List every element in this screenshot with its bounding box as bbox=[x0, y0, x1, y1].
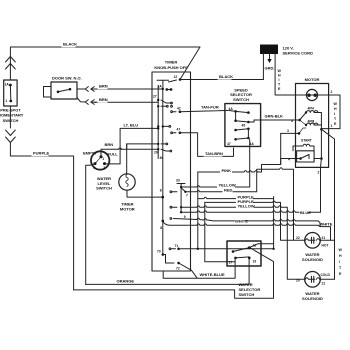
svg-text:8: 8 bbox=[160, 226, 162, 230]
svg-text:1: 1 bbox=[5, 99, 7, 103]
wire white right top bbox=[329, 95, 340, 129]
svg-text:YELLOW: YELLOW bbox=[238, 204, 255, 209]
timer pin 42 bbox=[171, 107, 181, 113]
svg-text:4PH: 4PH bbox=[308, 107, 315, 111]
wire white diag to solenoids bbox=[321, 129, 334, 279]
timer pin 12 bbox=[169, 75, 182, 82]
vertical v2 purple2 bbox=[205, 202, 235, 261]
label water solenoid cold bbox=[302, 291, 323, 301]
wire white-blue bbox=[163, 259, 235, 278]
connector fork lower bbox=[77, 98, 88, 105]
svg-text:27: 27 bbox=[153, 95, 157, 99]
svg-text:WHITE: WHITE bbox=[235, 219, 248, 224]
svg-text:W: W bbox=[339, 248, 343, 252]
svg-text:SWITCH: SWITCH bbox=[96, 186, 112, 191]
wire pin 71 right bbox=[179, 248, 274, 250]
svg-text:LT. BLU: LT. BLU bbox=[124, 123, 139, 128]
wire white service lead bbox=[275, 54, 296, 95]
wire yellow row3 bbox=[181, 206, 305, 280]
wire yellow bbox=[181, 140, 250, 188]
svg-text:BLACK: BLACK bbox=[63, 42, 77, 47]
svg-text:KNOB-PUSH OFF: KNOB-PUSH OFF bbox=[154, 65, 188, 70]
svg-text:ORANGE: ORANGE bbox=[117, 279, 135, 284]
svg-text:2: 2 bbox=[331, 90, 333, 94]
wire blue bbox=[181, 211, 299, 212]
wire motor pin3 bbox=[281, 128, 306, 135]
svg-text:START: START bbox=[301, 139, 312, 143]
svg-text:T: T bbox=[278, 83, 281, 87]
connector arrow upper brn bbox=[91, 87, 96, 92]
label cold solenoid pins bbox=[296, 273, 330, 286]
wire grn-blk bbox=[261, 119, 297, 121]
label hot solenoid pins bbox=[296, 236, 328, 248]
label WHITE vertical service bbox=[278, 69, 282, 91]
door switch bracket bbox=[44, 87, 52, 98]
wire pink vertical motor bbox=[280, 133, 282, 164]
wire pink bbox=[198, 159, 296, 173]
timer contact red row bbox=[170, 191, 172, 193]
wire purple row2 bbox=[205, 201, 294, 240]
label PINK bbox=[220, 169, 232, 174]
wire service cord left lead bbox=[262, 54, 264, 80]
svg-text:SWITCH: SWITCH bbox=[239, 292, 255, 297]
timer contact y3 row bbox=[170, 206, 172, 208]
svg-text:20: 20 bbox=[296, 279, 300, 283]
svg-text:2: 2 bbox=[94, 166, 96, 170]
timer motor bbox=[119, 174, 135, 190]
label timer motor bbox=[120, 202, 135, 212]
cold water solenoid bbox=[305, 272, 321, 288]
label TAN-BRN bbox=[204, 152, 223, 157]
label water level switch bbox=[96, 176, 112, 191]
timer pin 29 bbox=[154, 143, 163, 160]
svg-text:I: I bbox=[279, 78, 280, 82]
svg-text:36: 36 bbox=[160, 156, 164, 160]
svg-text:19: 19 bbox=[253, 260, 257, 264]
svg-text:W: W bbox=[278, 69, 282, 73]
label YELLOW bbox=[217, 183, 235, 188]
wire black top bbox=[10, 47, 200, 80]
timer contact row y89.5 bbox=[166, 89, 172, 91]
label BLACK top bbox=[62, 42, 76, 47]
label WHITE vertical motor bbox=[334, 102, 338, 126]
svg-text:3: 3 bbox=[287, 129, 289, 133]
label PURPLE bbox=[32, 151, 49, 156]
connector fork upper bbox=[77, 87, 88, 92]
wire tan-pur bbox=[180, 111, 228, 112]
timer pin 2A bbox=[158, 85, 165, 91]
motor box bbox=[296, 84, 329, 168]
svg-text:MOTOR: MOTOR bbox=[305, 77, 320, 82]
timer pin 27 bbox=[153, 95, 159, 102]
svg-text:I: I bbox=[334, 112, 335, 116]
svg-text:E: E bbox=[278, 87, 281, 91]
svg-text:9: 9 bbox=[184, 215, 186, 219]
svg-text:TAN-BRN: TAN-BRN bbox=[205, 151, 223, 156]
label WHITE vertical solenoid bbox=[339, 248, 343, 276]
motor start switch bbox=[297, 151, 315, 162]
wire purple bottom bbox=[74, 248, 274, 299]
svg-text:8: 8 bbox=[160, 189, 162, 193]
svg-text:7: 7 bbox=[186, 193, 188, 197]
wire red bbox=[185, 168, 305, 241]
timer contact row y100 bbox=[161, 100, 172, 104]
svg-text:I: I bbox=[339, 260, 340, 264]
svg-text:FULL: FULL bbox=[108, 152, 119, 157]
svg-text:RED: RED bbox=[224, 188, 233, 193]
svg-text:T: T bbox=[334, 117, 337, 121]
label timer knob-push off bbox=[154, 60, 188, 71]
timer contact row y144 bbox=[161, 143, 172, 152]
vertical v1 pink-purple1 bbox=[197, 172, 199, 249]
water selector switch bbox=[227, 241, 261, 266]
wire tan-brn bbox=[180, 133, 234, 157]
svg-text:2A: 2A bbox=[158, 85, 163, 89]
svg-text:33: 33 bbox=[176, 179, 180, 183]
wire motor bottom pin bbox=[318, 159, 322, 175]
label water solenoid hot bbox=[302, 252, 323, 262]
svg-text:E: E bbox=[334, 122, 337, 126]
svg-text:MOTOR: MOTOR bbox=[120, 206, 135, 211]
svg-text:71: 71 bbox=[175, 244, 179, 248]
svg-text:GRD.: GRD. bbox=[265, 66, 275, 71]
svg-text:SWITCH: SWITCH bbox=[233, 97, 249, 102]
svg-text:WHITE-BLUE: WHITE-BLUE bbox=[200, 272, 225, 277]
wire brn water level to timer pins 29/36 bbox=[101, 144, 158, 157]
label TAN-PUR bbox=[200, 105, 219, 110]
speed selector switch bbox=[225, 104, 261, 147]
svg-text:BRN: BRN bbox=[105, 142, 114, 147]
svg-text:42: 42 bbox=[177, 107, 181, 111]
svg-text:HOT: HOT bbox=[322, 244, 329, 248]
svg-text:1: 1 bbox=[102, 157, 104, 161]
svg-text:H: H bbox=[334, 107, 337, 111]
label YELLOW row3 bbox=[236, 204, 254, 209]
connector chevrons below pre-spot switch bbox=[6, 106, 16, 143]
motor winding 4PM bbox=[305, 120, 318, 127]
svg-text:E: E bbox=[339, 272, 342, 276]
timer pins 71 70 72 bbox=[157, 244, 180, 271]
svg-text:47: 47 bbox=[227, 142, 231, 146]
wire brn upper to timer bbox=[95, 88, 163, 90]
timer box bbox=[152, 72, 191, 271]
wire wss pin18 up bbox=[249, 244, 273, 249]
svg-text:SOLENOID: SOLENOID bbox=[302, 257, 323, 262]
svg-text:PINK: PINK bbox=[222, 168, 232, 173]
timer bus right bbox=[162, 89, 164, 255]
wire cold right bbox=[320, 278, 334, 280]
label water selector switch bbox=[239, 282, 261, 297]
label BRN upper bbox=[98, 84, 108, 89]
service cord plug bbox=[260, 45, 278, 55]
svg-text:45: 45 bbox=[242, 124, 246, 128]
svg-text:1A: 1A bbox=[5, 83, 10, 87]
label BRN lower bbox=[98, 98, 108, 103]
svg-text:BRN: BRN bbox=[99, 97, 108, 102]
timer pin 33 bus bbox=[176, 179, 188, 219]
ground stub bbox=[267, 54, 271, 63]
motor start winding bbox=[293, 139, 314, 152]
svg-text:SOLENOID: SOLENOID bbox=[302, 296, 323, 301]
wire timer motor bottom to pin 8 bbox=[127, 190, 163, 197]
label PURPLE row2 bbox=[236, 200, 253, 205]
wire motor pin4 bbox=[288, 129, 323, 161]
svg-text:H: H bbox=[339, 254, 342, 258]
svg-text:2: 2 bbox=[318, 171, 320, 175]
svg-text:47: 47 bbox=[177, 128, 181, 132]
label BLACK mid bbox=[218, 75, 232, 80]
label speed selector switch bbox=[230, 87, 252, 102]
svg-text:29: 29 bbox=[154, 151, 158, 155]
motor protector bbox=[306, 89, 317, 100]
svg-text:17: 17 bbox=[229, 261, 233, 265]
wire brn lower to timer bbox=[95, 101, 159, 103]
label pre-spot momentary switch bbox=[0, 108, 24, 123]
motor speed contact bbox=[291, 113, 306, 126]
timer bus left bbox=[157, 86, 159, 159]
svg-text:70: 70 bbox=[157, 250, 161, 254]
svg-text:3: 3 bbox=[103, 166, 105, 170]
wire orange bottom bbox=[86, 259, 249, 284]
svg-text:21: 21 bbox=[322, 282, 326, 286]
svg-text:72: 72 bbox=[176, 267, 180, 271]
svg-text:DOOR SW. N.O.: DOOR SW. N.O. bbox=[52, 76, 82, 81]
svg-text:BLACK: BLACK bbox=[219, 74, 233, 79]
water level switch bbox=[91, 151, 109, 170]
pre-spot momentary switch bbox=[4, 80, 17, 106]
wire terminal2 orange down bbox=[86, 164, 95, 285]
wire lt blu bbox=[120, 128, 158, 164]
svg-text:BLUE: BLUE bbox=[300, 210, 311, 215]
label PURPLE row1 bbox=[236, 195, 253, 200]
timer pin 8 vertical bbox=[160, 189, 164, 230]
svg-text:TAN-PUR: TAN-PUR bbox=[201, 105, 219, 110]
svg-text:GRN-BLK: GRN-BLK bbox=[265, 114, 284, 119]
label RED bbox=[223, 188, 233, 193]
svg-text:W: W bbox=[334, 102, 338, 106]
timer pin 47 bbox=[171, 128, 181, 135]
wire black pin12 to service cord bbox=[180, 79, 263, 81]
svg-text:EMPTY: EMPTY bbox=[83, 150, 97, 155]
svg-text:6: 6 bbox=[291, 119, 293, 123]
svg-text:22: 22 bbox=[296, 236, 300, 240]
hot water solenoid bbox=[305, 233, 321, 249]
svg-text:COLD: COLD bbox=[321, 273, 331, 277]
connector arrow lower brn bbox=[91, 100, 96, 105]
wire timer motor top bbox=[126, 144, 128, 174]
timer contact row y126 bbox=[157, 125, 171, 127]
timer contact T-bar top bbox=[157, 80, 169, 89]
svg-text:PURPLE: PURPLE bbox=[33, 151, 50, 156]
wire windings right join bbox=[314, 113, 329, 131]
wire protector leads bbox=[296, 94, 329, 96]
wire purple row1 bbox=[198, 197, 274, 198]
svg-text:SERVICE CORD: SERVICE CORD bbox=[283, 51, 313, 56]
timer contact row y106 bbox=[157, 105, 172, 107]
door switch N.O. bbox=[51, 82, 77, 99]
svg-text:4A: 4A bbox=[229, 107, 234, 111]
wire hot right bbox=[320, 239, 334, 241]
connector chevrons above pre-spot switch bbox=[6, 57, 16, 70]
svg-text:WHITE: WHITE bbox=[320, 221, 333, 226]
svg-text:1: 1 bbox=[331, 124, 333, 128]
wire white row1 bbox=[174, 218, 235, 221]
svg-text:21: 21 bbox=[322, 236, 326, 240]
wire purple left bbox=[10, 143, 73, 290]
svg-text:T: T bbox=[339, 266, 342, 270]
svg-text:TIMER: TIMER bbox=[165, 60, 178, 65]
wire terminal3 to lt blu bbox=[105, 163, 121, 165]
svg-text:12: 12 bbox=[174, 75, 178, 79]
svg-text:4: 4 bbox=[288, 158, 290, 162]
motor main winding 4PH bbox=[305, 107, 318, 114]
label 120V service cord bbox=[283, 46, 313, 56]
svg-text:4A: 4A bbox=[250, 142, 255, 146]
svg-text:H: H bbox=[278, 74, 281, 78]
svg-text:BRN: BRN bbox=[99, 84, 108, 89]
wire white row2 bbox=[163, 221, 320, 227]
